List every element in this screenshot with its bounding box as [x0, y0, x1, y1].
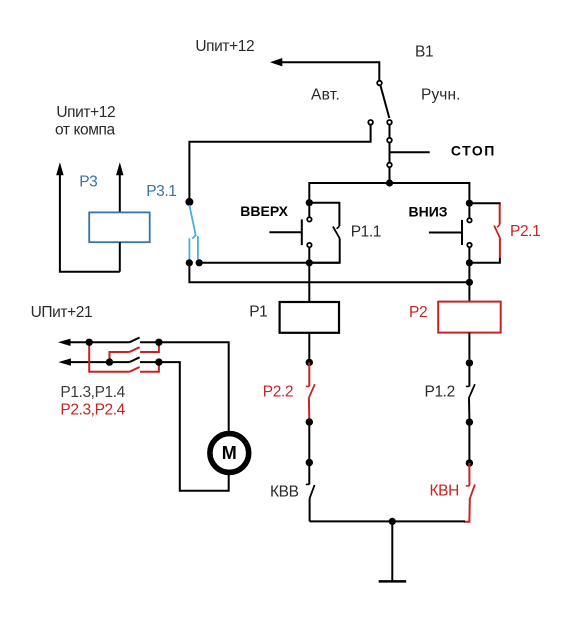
contact P1.1 branch wires [309, 203, 339, 226]
wire to ВВЕРХ button [308, 203, 310, 218]
svg-text:Uпит+12: Uпит+12 [56, 104, 115, 121]
svg-text:P1.3,P1.4: P1.3,P1.4 [60, 384, 125, 401]
contact КВН lower wire (red) [464, 498, 470, 521]
svg-text:B1: B1 [415, 43, 433, 60]
button ВВЕРХ upper terminal [307, 217, 311, 221]
contact P1.1 lower wire [309, 238, 339, 262]
svg-text:P2.1: P2.1 [510, 223, 540, 240]
contact КВВ upper wire [308, 463, 310, 485]
wire through СТОП button [389, 142, 391, 162]
button ВВЕРХ lower terminal [307, 243, 311, 247]
svg-text:P3.1: P3.1 [146, 183, 176, 200]
wire red crossover from A2 up to row A [110, 352, 130, 362]
node ВНИЗ bottom junction [466, 259, 473, 266]
node КВН top junction [466, 459, 473, 466]
wire motor line 2 right [140, 362, 229, 491]
contact КВВ tick [306, 483, 310, 485]
wire from Авт contact to P3.1 [189, 125, 370, 199]
node P3.1 bottom right junction [196, 259, 203, 266]
svg-text:Авт.: Авт. [311, 86, 340, 103]
button ВВЕРХ actuator [269, 231, 301, 233]
node P1.2 top junction [466, 359, 473, 366]
wire lower rail 1 [199, 262, 340, 264]
node ground junction [389, 518, 396, 525]
contact КВН upper wire (red) [468, 463, 470, 486]
node P2.2 top junction [306, 359, 313, 366]
svg-text:UПит+21: UПит+21 [31, 304, 93, 321]
node Авт contact terminal [368, 120, 373, 125]
svg-text:P2.2: P2.2 [263, 384, 293, 401]
node A2 junction [106, 358, 113, 365]
node junction on main rail [386, 179, 393, 186]
wire P2.2 to КВВ [308, 422, 310, 463]
wire below P3 coil [119, 242, 121, 272]
node P2.2 bottom junction [306, 418, 313, 425]
svg-text:P2.3,P2.4: P2.3,P2.4 [60, 402, 125, 419]
contact P2.1 lower wire (red) [499, 239, 501, 259]
button ВНИЗ actuator [429, 232, 462, 234]
wire P1 coil to P2.2 [308, 333, 310, 359]
svg-text:P1: P1 [249, 304, 267, 321]
relay coil P3 [89, 212, 150, 242]
node P1.2 bottom junction [466, 418, 473, 425]
contact P2.2 upper wire (red) [308, 362, 310, 386]
ground [391, 521, 393, 581]
contact P3.1 blade (blue) [189, 205, 195, 239]
wire ВНИЗ branch to P2 coil [468, 263, 470, 302]
node СТОП button upper terminal [387, 138, 392, 143]
wire P2 coil to P1.2 [468, 333, 470, 360]
contact КВН tick [466, 485, 470, 487]
wire motor line 2 with left arrow [70, 361, 129, 363]
switch P1.3 blade [129, 338, 139, 343]
wire B1 to СТОП button [389, 125, 391, 138]
node B1 junction [155, 339, 162, 346]
node СТОП button lower terminal [387, 163, 392, 168]
button ВНИЗ bar [461, 220, 463, 245]
wire motor line 1 with left arrow [70, 341, 129, 343]
svg-text:ВВЕРХ: ВВЕРХ [240, 203, 288, 219]
switch P2.4 blade [129, 367, 139, 372]
svg-text:от компа: от компа [55, 122, 116, 139]
node rail2 right junction [466, 279, 473, 286]
wire top feed with left arrow [280, 62, 379, 80]
wire P1.2 to КВН [468, 422, 470, 463]
contact P2.2 tick [306, 385, 310, 387]
contact P3.1 right terminal (blue) [197, 236, 199, 259]
contact P2.1 upper wire (red) [499, 204, 501, 225]
contact P1.2 blade [469, 384, 475, 398]
svg-text:P2: P2 [409, 304, 427, 321]
contact P2.1 branch top wire [469, 203, 499, 205]
wire main rail [309, 183, 469, 204]
node ВВЕРХ branch top junction [306, 199, 313, 206]
svg-text:ВНИЗ: ВНИЗ [409, 203, 448, 219]
contact P2.2 lower wire (red) [308, 398, 310, 418]
wire red crossover from A1 down to row B [89, 342, 129, 372]
wire ВВЕРХ button to lower rail [308, 247, 310, 262]
node P3.1 top junction [185, 198, 193, 206]
wire motor line 1 right [140, 342, 229, 431]
wire СТОП to main rail [389, 167, 391, 183]
node ВНИЗ branch top junction [466, 200, 473, 207]
switch P2.3 blade [129, 347, 139, 352]
motor M [210, 434, 249, 473]
svg-text:P1.1: P1.1 [351, 223, 381, 240]
svg-text:P1.2: P1.2 [425, 384, 455, 401]
wire P2.1 bottom to ВНИЗ junction (black) [469, 258, 500, 263]
wire to ВНИЗ button [468, 203, 470, 218]
contact P2.1 blade [494, 226, 500, 239]
contact P1.2 lower wire [468, 398, 470, 418]
relay coil P1 [280, 302, 339, 333]
wire ВНИЗ button to lower rail [468, 247, 470, 263]
wire red row A to B1 [140, 342, 159, 352]
wire lower rail 2 [189, 263, 469, 283]
svg-text:КВН: КВН [430, 483, 459, 500]
contact P2.1 tick [497, 225, 500, 228]
svg-text:Uпит+12: Uпит+12 [195, 38, 254, 55]
button ВНИЗ upper terminal [467, 218, 471, 222]
contact P3.1 left terminal (blue) [188, 238, 190, 259]
node ВВЕРХ bottom junction [306, 259, 313, 266]
button СТОП actuator [390, 151, 430, 153]
node КВВ top junction [306, 459, 313, 466]
node B2 junction [155, 358, 162, 365]
contact КВВ blade [310, 485, 315, 498]
switch B1 blade [380, 85, 389, 118]
contact P1.2 upper wire [468, 363, 470, 387]
wire bottom rail [310, 520, 465, 522]
switch B1 common terminal [377, 81, 382, 86]
wire left supply arrow 1 [60, 173, 120, 272]
wire left supply arrow 2 [119, 173, 121, 212]
contact P1.1 tick [337, 226, 340, 229]
contact КВВ lower wire [309, 498, 311, 521]
svg-text:P3: P3 [79, 174, 97, 191]
svg-text:КВВ: КВВ [270, 483, 299, 500]
contact P2.2 blade [309, 384, 315, 398]
wire red row B to B2 [140, 362, 159, 372]
relay coil P2 [438, 302, 501, 333]
contact P1.1 blade [333, 226, 340, 238]
button ВНИЗ lower terminal [467, 243, 471, 247]
node A1 junction [86, 339, 93, 346]
contact КВН blade [470, 484, 475, 498]
switch P1.4 blade [129, 357, 139, 362]
contact P1.2 tick [466, 385, 470, 387]
node Ручн contact terminal [387, 120, 392, 125]
button ВВЕРХ bar [301, 219, 303, 245]
node P3.1 bottom left junction [186, 259, 193, 266]
svg-text:СТОП: СТОП [451, 143, 496, 159]
wire ВВЕРХ branch to P1 coil [308, 263, 310, 302]
svg-text:Ручн.: Ручн. [421, 86, 461, 103]
svg-text:M: M [222, 443, 237, 463]
